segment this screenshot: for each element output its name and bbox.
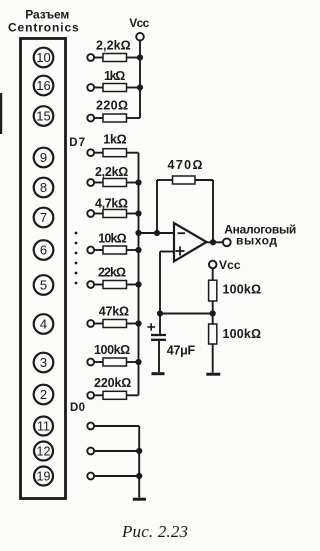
svg-text:5: 5 (40, 278, 47, 293)
svg-text:19: 19 (37, 470, 51, 484)
svg-text:11: 11 (37, 420, 50, 434)
svg-text:16: 16 (36, 78, 50, 93)
svg-text:Centronics: Centronics (8, 21, 79, 35)
svg-text:4,7kΩ: 4,7kΩ (95, 197, 128, 211)
svg-text:220Ω: 220Ω (96, 99, 128, 113)
svg-text:2,2kΩ: 2,2kΩ (95, 165, 128, 179)
svg-text:2: 2 (40, 387, 47, 402)
svg-text:2,2kΩ: 2,2kΩ (96, 39, 131, 53)
svg-text:выход: выход (236, 234, 277, 248)
svg-text:7: 7 (40, 210, 47, 225)
svg-text:22kΩ: 22kΩ (98, 266, 126, 280)
svg-text:100kΩ: 100kΩ (94, 343, 130, 357)
svg-text:47μF: 47μF (167, 344, 196, 358)
svg-text:Vcc: Vcc (219, 258, 241, 272)
svg-text:47kΩ: 47kΩ (99, 305, 129, 319)
svg-text:10kΩ: 10kΩ (98, 232, 126, 246)
svg-text:100kΩ: 100kΩ (223, 283, 262, 297)
svg-text:4: 4 (40, 317, 47, 332)
svg-text:100kΩ: 100kΩ (223, 327, 262, 341)
svg-text:Разъем: Разъем (25, 8, 69, 22)
svg-text:10: 10 (36, 50, 50, 65)
svg-text:D7: D7 (69, 137, 85, 149)
svg-text:Рис. 2.23: Рис. 2.23 (121, 522, 188, 541)
svg-text:12: 12 (37, 445, 51, 459)
svg-text:1kΩ: 1kΩ (103, 133, 126, 147)
svg-text:220kΩ: 220kΩ (94, 376, 131, 390)
svg-text:8: 8 (40, 180, 47, 195)
svg-text:D0: D0 (70, 402, 85, 414)
svg-text:470Ω: 470Ω (168, 158, 203, 172)
svg-text:1kΩ: 1kΩ (104, 69, 125, 83)
svg-text:9: 9 (40, 150, 47, 165)
svg-text:Vcc: Vcc (129, 16, 149, 30)
svg-text:3: 3 (40, 355, 47, 370)
svg-text:6: 6 (40, 243, 47, 258)
svg-text:15: 15 (36, 109, 50, 124)
